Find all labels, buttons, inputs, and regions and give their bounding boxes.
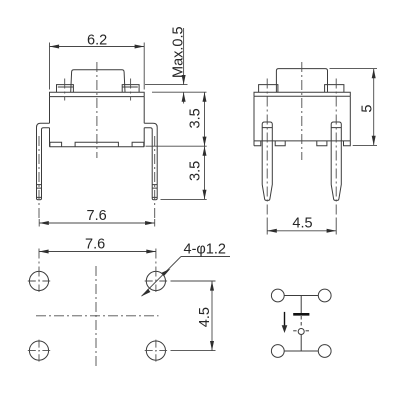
switch SW1 front view: button plunger (71, 70, 125, 92)
label 4-phi1.2 with leader (142, 242, 231, 297)
pin 1 centerline (38, 136, 40, 219)
dimension 3.5 upper (body height) (146, 92, 207, 146)
svg-text:Max.0.5: Max.0.5 (170, 26, 186, 78)
switch SW1 front view: left boss ear (57, 85, 74, 93)
actuator side dash left (293, 330, 296, 332)
side view bottom standoff 3 (317, 141, 327, 146)
pin 2 centerline (154, 136, 156, 219)
switch SW1 side view: body sides and bottom (254, 96, 350, 141)
terminal T2 top-right (318, 289, 331, 302)
left ear centerline (64, 79, 66, 101)
terminal T3 bottom-left (271, 345, 284, 358)
hole H2 top-right (145, 249, 167, 293)
side view main vertical centerline (301, 62, 303, 160)
side view bottom standoff 2 (275, 141, 285, 146)
svg-text:6.2: 6.2 (87, 33, 107, 49)
press direction arrow (282, 312, 288, 333)
switch SW1 front view: top plate flange (50, 92, 145, 96)
svg-text:7.6: 7.6 (87, 208, 107, 224)
dimension 4.5 (side view lead spacing) (267, 216, 336, 235)
svg-text:3.5: 3.5 (188, 108, 204, 128)
wire bottom stub from actuator (300, 335, 302, 351)
dimension 3.5 lower (leg length) (161, 146, 207, 199)
dimension 6.2 (top) (50, 33, 145, 90)
terminal T4 bottom-right (318, 345, 331, 358)
side view right leg centerline (335, 79, 337, 219)
side view right leg pin (331, 122, 341, 200)
switch SW1 front view: bottom right foot tab (132, 142, 144, 147)
footprint vertical centerline (95, 266, 97, 366)
svg-text:5: 5 (359, 105, 375, 113)
actuator dashed link (300, 316, 302, 328)
dimension Max.0.5 (right of front view) (145, 26, 207, 103)
wire top (284, 295, 318, 297)
switch SW1 side view: left boss ear (259, 85, 278, 93)
wire bottom (284, 350, 318, 352)
svg-text:3.5: 3.5 (188, 161, 204, 181)
switch SW1 front view: bottom left foot tab (50, 142, 62, 147)
switch SW1 front view: body sides and bottom (50, 97, 145, 147)
wire top stub to contact (300, 296, 302, 314)
dimension 5 (side view height) (330, 69, 378, 146)
switch SW1 side view: button plunger (276, 69, 327, 93)
side view left leg pin (262, 122, 272, 200)
switch SW1 front view: right boss ear (122, 85, 139, 93)
actuator side dash right (306, 330, 309, 332)
svg-text:4.5: 4.5 (197, 307, 213, 327)
switch SW1 side view: top plate flange (254, 92, 350, 96)
footprint horizontal centerline (36, 315, 159, 317)
side view bottom standoff 1 (254, 141, 261, 146)
terminal T1 top-left (271, 289, 284, 302)
front view main vertical centerline (96, 62, 98, 158)
dimension 7.6 (front view bottom, lead spacing) (39, 208, 155, 227)
side view bottom standoff 4 (344, 141, 351, 146)
dimension 4.5 (footprint) (171, 281, 216, 351)
switch SW1 front view: bottom middle foot tab (75, 142, 118, 147)
pin 2 crimp marks (152, 185, 157, 198)
pin 1 crimp marks (37, 185, 42, 198)
right ear centerline (130, 79, 132, 101)
switch SW1 front view: right leg pin 2 (144, 123, 157, 200)
hole H3 bottom-left (28, 340, 50, 362)
side view left leg centerline (266, 79, 268, 219)
actuator button circle (298, 329, 304, 335)
dimension 7.6 (footprint) (39, 236, 156, 253)
svg-text:4-φ1.2: 4-φ1.2 (184, 242, 226, 258)
svg-text:4.5: 4.5 (292, 216, 312, 232)
switch SW1 front view: left leg pin 1 (37, 123, 50, 200)
switch SW1 side view: right boss ear (325, 85, 344, 93)
svg-text:7.6: 7.6 (85, 236, 105, 252)
hole H4 bottom-right (145, 340, 167, 362)
hole H1 top-left (28, 249, 50, 293)
movable contact bar (293, 313, 309, 316)
